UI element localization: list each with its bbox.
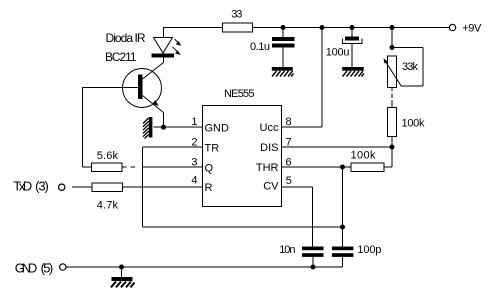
node DIS junction [390, 145, 395, 150]
pin label Ucc [260, 122, 279, 134]
node: rail to 33k junction [390, 25, 395, 30]
pin number 5 [286, 175, 292, 187]
node THR bottom junction [340, 225, 345, 230]
pin number 4 [191, 175, 197, 187]
wire base [83, 87, 139, 89]
capacitor 0.1u [250, 28, 295, 68]
svg-text:0.1u: 0.1u [250, 41, 270, 53]
terminal +9V [449, 23, 482, 35]
svg-text:TxD: TxD [13, 179, 32, 194]
pin number 8 [286, 116, 292, 128]
op-amp U1 NE555 body [203, 88, 282, 206]
wire LED anode drop [163, 28, 165, 38]
svg-text:1: 1 [191, 116, 197, 128]
pin number 2 [191, 136, 197, 148]
label Dioda IR [106, 31, 146, 45]
svg-text:Dioda IR: Dioda IR [106, 31, 146, 45]
svg-text:NE555: NE555 [224, 88, 255, 100]
wire 4.7k to pin4 R [123, 186, 203, 188]
wire +9V top rail left segment [163, 27, 222, 29]
wire 5.6k left to base riser [83, 88, 92, 168]
pin number 3 [191, 156, 197, 168]
wire 100k to DIS node [384, 147, 392, 167]
svg-text:10n: 10n [279, 244, 295, 256]
ground chassis under 100u [342, 67, 364, 77]
wire 100k to DIS junction [391, 137, 393, 148]
resistor 100k horizontal [351, 150, 385, 172]
pin label DIS [260, 142, 278, 154]
svg-text:GND: GND [205, 123, 230, 135]
terminal TxD (3) [13, 179, 65, 194]
ground chassis under 0.1u [272, 67, 294, 77]
wire GND rail [66, 266, 343, 268]
transistor Q1 BC211 [123, 63, 164, 113]
node 10n bottom junction [311, 265, 316, 270]
wire TR to THR bottom link [143, 226, 343, 228]
LED D1 Dioda IR [152, 38, 182, 58]
pin label R [205, 182, 213, 194]
svg-text:5: 5 [286, 175, 292, 187]
svg-text:100u: 100u [326, 47, 350, 59]
resistor 100k vertical [388, 108, 426, 137]
svg-text:4: 4 [191, 175, 197, 187]
svg-text:100p: 100p [357, 244, 381, 256]
wire THR vertical link [342, 167, 344, 227]
wire emitter drop [163, 113, 165, 128]
resistor 5.6k [92, 150, 123, 171]
svg-text:Q: Q [205, 162, 214, 174]
svg-text:5.6k: 5.6k [97, 150, 119, 162]
wire pin8 Ucc [281, 28, 322, 128]
svg-text:TR: TR [205, 142, 220, 154]
svg-text:+9V: +9V [462, 23, 482, 35]
svg-text:BC211: BC211 [105, 50, 137, 64]
svg-text:33k: 33k [402, 61, 419, 73]
svg-text:R: R [205, 182, 213, 194]
wire pin2 TR [143, 146, 203, 148]
node: rail to 0.1u junction [281, 25, 286, 30]
wire TR vertical link [142, 147, 144, 227]
pin label TR [205, 142, 220, 154]
pin number 1 [191, 116, 197, 128]
svg-text:4.7k: 4.7k [97, 200, 119, 212]
wire emitter to pin1 [154, 126, 203, 128]
svg-text:8: 8 [286, 116, 292, 128]
wire LED cathode to collector [163, 58, 165, 64]
svg-text:33: 33 [231, 9, 242, 21]
node: rail to Ucc junction [320, 25, 325, 30]
ground chassis at emitter [143, 117, 152, 139]
terminal GND (5) [15, 261, 66, 276]
svg-text:100k: 100k [402, 118, 426, 130]
resistor 4.7k [92, 183, 123, 212]
pin label THR [256, 162, 279, 174]
svg-text:100k: 100k [351, 150, 377, 162]
svg-text:THR: THR [256, 162, 279, 174]
trimmer 33k [384, 28, 424, 88]
pin number 7 [286, 136, 292, 148]
svg-text:GND: GND [15, 261, 38, 276]
svg-text:DIS: DIS [260, 142, 278, 154]
capacitor 100u electrolytic [326, 28, 362, 68]
wire 33k to 100k dashes [391, 88, 393, 108]
node emitter junction [161, 125, 166, 130]
pin label Q [205, 162, 214, 174]
wire +9V top rail right segment [253, 27, 451, 29]
wire pin7 DIS [281, 146, 392, 148]
capacitor 100p [332, 227, 382, 267]
node THR junction [340, 165, 345, 170]
svg-text:CV: CV [263, 181, 279, 193]
svg-text:(5): (5) [41, 261, 54, 276]
node: rail to 100u junction [350, 25, 355, 30]
capacitor 10n [279, 244, 323, 267]
node GND chassis junction [119, 265, 124, 270]
wire TxD to 4.7k [72, 186, 92, 188]
ground chassis on GND rail [111, 267, 135, 287]
wire 5.6k to Q dashes [123, 166, 203, 168]
label BC211 [105, 50, 137, 64]
pin number 6 [286, 156, 292, 168]
svg-text:(3): (3) [35, 179, 49, 194]
resistor 33 [223, 9, 253, 33]
pin label GND [205, 123, 230, 135]
wire pin6 THR [281, 166, 351, 168]
pin label CV [263, 181, 279, 193]
svg-text:Ucc: Ucc [260, 122, 279, 134]
wire pin5 CV [281, 187, 313, 247]
